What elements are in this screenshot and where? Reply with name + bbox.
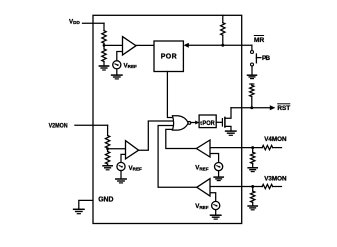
svg-text:V4MON: V4MON (264, 136, 287, 143)
svg-text:GND: GND (98, 196, 113, 203)
svg-text:VREF: VREF (195, 165, 209, 172)
svg-text:V2MON: V2MON (49, 123, 68, 130)
svg-text:PB: PB (262, 55, 270, 62)
svg-text:V3MON: V3MON (264, 176, 287, 183)
svg-text:VDD: VDD (69, 18, 80, 25)
svg-text:VREF: VREF (195, 203, 209, 210)
svg-text:POR: POR (161, 54, 177, 61)
svg-text:VREF: VREF (124, 62, 138, 69)
svg-text:POR: POR (202, 120, 215, 127)
svg-text:MR: MR (254, 37, 265, 44)
svg-text:VREF: VREF (129, 165, 143, 172)
svg-text:RST: RST (277, 105, 290, 112)
